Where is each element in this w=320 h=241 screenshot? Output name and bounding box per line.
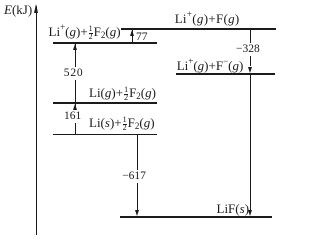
axis label E(kJ) [4,4,32,16]
arrow 161 shaft [75,104,76,133]
label -617 [121,170,147,183]
arrow -617 shaft [137,135,138,209]
label -328 [235,43,261,56]
label 77 [136,31,148,43]
axis arrowhead [34,4,38,13]
level B label Li+(g)+F(g) [175,13,240,25]
level D line Li(g)+1/2F2(g) [53,102,158,104]
level C line Li+(g)+F-(g) [176,73,275,75]
label 520 [63,67,85,80]
arrow -617 head (down) [135,210,139,216]
level D label Li(g)+1/2F2(g) [89,87,156,102]
level B line Li+(g)+F(g) [121,28,276,30]
long lattice arrow head (down) [248,210,252,216]
arrow 161 head (up) [73,104,77,110]
arrow 520 shaft [75,44,76,102]
level F label LiF(s) [217,203,250,215]
label 161 [63,110,82,123]
level C label Li+(g)+F-(g) [177,60,244,72]
arrow -328 head (down) [248,67,252,73]
long lattice arrow shaft (right) [250,75,251,210]
level E line Li(s)+1/2F2(g) [53,134,158,136]
level E label Li(s)+1/2F2(g) [89,117,155,132]
arrow -328 shaft [250,30,251,67]
level F line LiF(s) [120,216,272,218]
axis E(kJ) vertical line [36,6,37,235]
arrow 520 head (up) [73,44,77,50]
arrow 77 head (up) [130,30,134,36]
level A label Li+(g)+1/2F2(g) [49,26,121,41]
level A line Li+(g)+1/2F2(g) [53,42,157,44]
arrow 77 shaft [132,30,133,42]
